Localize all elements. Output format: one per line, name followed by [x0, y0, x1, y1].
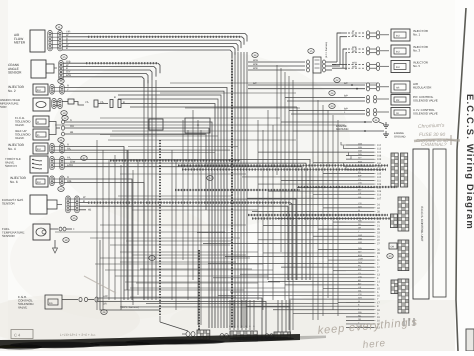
- svg-text:BR: BR: [103, 303, 107, 306]
- svg-text:G/B: G/B: [358, 153, 362, 156]
- wires: egr control valve: [98, 295, 266, 341]
- svg-text:S: S: [70, 119, 72, 122]
- svg-text:101: 101: [377, 151, 382, 154]
- svg-text:GROUND: GROUND: [394, 135, 406, 138]
- ECCS control unit box: [413, 149, 429, 299]
- svg-text:VALVE: VALVE: [15, 123, 24, 127]
- ECU bottom stub ticks: [404, 318, 414, 326]
- svg-text:No. 3: No. 3: [413, 49, 421, 53]
- connector 18 (fuel temp sensor): [63, 238, 69, 243]
- wire: fuel temperature sensor: [50, 227, 75, 231]
- connector 24 (egr valve): [101, 310, 107, 315]
- svg-text:AR: AR: [396, 87, 400, 90]
- faint pencil note bottom left: [60, 333, 96, 337]
- ECU connector grid F: [398, 279, 409, 313]
- svg-text:R: R: [67, 85, 69, 88]
- wire: injector No.6: [64, 176, 144, 300]
- svg-text:110: 110: [377, 162, 382, 165]
- handwriting near ECU (pencil notes): [414, 123, 460, 148]
- svg-text:114: 114: [377, 194, 382, 197]
- svg-text:SOR: SOR: [0, 105, 7, 109]
- svg-text:AV: AV: [396, 112, 399, 115]
- injector No.2: [8, 84, 64, 95]
- svg-text:E.C.C.S. Wiring Diagram: E.C.C.S. Wiring Diagram: [465, 94, 474, 230]
- connector mark in harness mesh: [149, 256, 155, 261]
- svg-text:102: 102: [377, 176, 382, 179]
- F.I.C.D. solenoid valve: [15, 116, 49, 127]
- svg-text:L/OR: L/OR: [358, 258, 363, 261]
- vertical title: ECCS Wiring Diagram: [465, 94, 474, 230]
- engine ground (upper): [281, 118, 389, 132]
- wire: injector No.2: [64, 85, 227, 328]
- svg-text:L/R: L/R: [358, 192, 362, 195]
- wires: ficd / idle up valves: [62, 119, 213, 328]
- svg-text:107: 107: [377, 197, 382, 200]
- svg-text:G/R: G/R: [358, 297, 362, 300]
- connector 34: [252, 53, 258, 58]
- svg-text:Y/R: Y/R: [358, 293, 362, 296]
- page edge line (right): [456, 8, 466, 351]
- svg-text:B/W: B/W: [66, 74, 71, 77]
- svg-text:B/P: B/P: [344, 108, 348, 111]
- svg-text:112: 112: [377, 144, 382, 147]
- air flow meter: [14, 30, 62, 52]
- svg-text:W/G: W/G: [352, 62, 357, 65]
- svg-text:R/B: R/B: [67, 180, 72, 183]
- svg-text:here: here: [362, 338, 386, 351]
- svg-text:L/W: L/W: [103, 295, 108, 298]
- svg-text:106: 106: [377, 190, 382, 193]
- connector 37 (throttle valve switch): [81, 156, 87, 161]
- ECU connector small box OR: [389, 243, 397, 249]
- ECU connector grid A2: [401, 153, 408, 187]
- svg-text:R: R: [67, 176, 69, 179]
- svg-text:OR: OR: [70, 125, 74, 128]
- junction box (harness splice) A: [149, 119, 163, 130]
- svg-text:W/B: W/B: [358, 146, 363, 149]
- svg-text:OR: OR: [391, 246, 395, 249]
- fuel temperature sensor: [2, 224, 50, 240]
- wires: exhaust gas sensor (shielded): [79, 196, 296, 280]
- connector 30 (ecu): [387, 254, 393, 259]
- bottom-right page corner box: [466, 329, 474, 351]
- svg-text:W/G: W/G: [253, 59, 258, 62]
- EFI harness junction connector: [248, 42, 343, 73]
- svg-text:+: +: [73, 227, 75, 231]
- svg-text:VALVE: VALVE: [18, 306, 27, 310]
- svg-text:W/G: W/G: [358, 143, 363, 146]
- P.R. control solenoid valve: [285, 95, 438, 106]
- svg-text:BR: BR: [358, 279, 361, 282]
- svg-text:FI: FI: [37, 121, 39, 124]
- wire bundle: crank angle sensor: [63, 60, 160, 86]
- harness boundary rectangle: [100, 240, 160, 310]
- exhaust gas sensor: [2, 195, 79, 214]
- svg-text:W/R: W/R: [253, 67, 258, 70]
- svg-text:EG: EG: [49, 302, 53, 305]
- check connector sub-circuit (cyl head temp): [62, 96, 297, 328]
- svg-text:SENSOR: SENSOR: [2, 234, 16, 238]
- svg-text:W/B: W/B: [253, 63, 258, 66]
- svg-text:METER: METER: [14, 41, 26, 45]
- ECU connector grid A1: [391, 153, 398, 187]
- svg-text:B: B: [83, 200, 85, 203]
- svg-text:B: B: [114, 96, 116, 99]
- svg-text:L/W: L/W: [358, 182, 362, 185]
- A.I.V. control solenoid valve: [289, 108, 438, 119]
- svg-text:C 4: C 4: [14, 333, 21, 338]
- svg-text:SOLENOID VALVE: SOLENOID VALVE: [413, 111, 438, 115]
- ECU connector grid C: [391, 214, 398, 228]
- connector 16 (exhaust gas sensor): [71, 216, 77, 221]
- connector 12 (ficd/idle up): [62, 116, 68, 121]
- connector 11 (air flow meter): [56, 25, 62, 30]
- svg-text:G/R: G/R: [358, 205, 362, 208]
- injector No.3: [343, 45, 429, 70]
- svg-text:103: 103: [377, 158, 382, 161]
- svg-text:G/B: G/B: [358, 247, 362, 250]
- center-left vertical wires: [97, 110, 201, 325]
- svg-text:SWITCH: SWITCH: [5, 164, 17, 168]
- svg-text:L/W: L/W: [358, 275, 362, 278]
- svg-text:PR: PR: [396, 99, 400, 102]
- injector No.4: [8, 143, 64, 154]
- ECU side box: [433, 149, 446, 297]
- svg-text:W: W: [358, 209, 360, 212]
- svg-text:(E.F.I. harness): (E.F.I. harness): [325, 42, 328, 58]
- connector 26 (injector No.6): [58, 187, 64, 192]
- svg-text:ID: ID: [37, 134, 40, 137]
- svg-text:109: 109: [377, 183, 382, 186]
- svg-text:B/P: B/P: [344, 82, 348, 85]
- connector mark in harness mesh 2: [207, 176, 213, 181]
- svg-text:4B: 4B: [70, 131, 73, 134]
- svg-text:SOLENOID VALVE: SOLENOID VALVE: [413, 98, 438, 102]
- svg-text:W/B: W/B: [358, 237, 363, 240]
- center-right vertical wires: [258, 65, 338, 330]
- svg-text:W/G: W/G: [358, 234, 363, 237]
- svg-text:VALVE: VALVE: [15, 136, 24, 140]
- svg-text:Y: Y: [67, 88, 69, 91]
- svg-text:CRIMINAL?: CRIMINAL?: [421, 142, 447, 148]
- supplemental mesh horizontals: [100, 135, 338, 307]
- idle up solenoid valve: [15, 122, 65, 141]
- svg-text:G/Y: G/Y: [358, 250, 362, 253]
- svg-text:No. 1: No. 1: [413, 33, 421, 37]
- svg-text:E.C.C.S. CONTROL UNIT: E.C.C.S. CONTROL UNIT: [420, 207, 424, 242]
- junction box (harness splice) B: [185, 118, 210, 133]
- svg-text:B/P: B/P: [253, 82, 257, 85]
- svg-text:108: 108: [377, 155, 382, 158]
- svg-text:W/R: W/R: [358, 241, 363, 244]
- svg-text:No. 6: No. 6: [10, 180, 18, 184]
- svg-text:SENSOR: SENSOR: [8, 71, 22, 75]
- svg-text:No. 2: No. 2: [8, 89, 16, 93]
- shielded horizontal runs (hatched): [110, 161, 397, 219]
- svg-text:4B: 4B: [88, 209, 91, 212]
- svg-text:SENSOR: SENSOR: [2, 202, 16, 206]
- svg-text:B: B: [66, 47, 68, 50]
- svg-text:L+16+18+1 + 3+6 + b.c.: L+16+18+1 + 3+6 + b.c.: [60, 333, 96, 337]
- svg-text:Y/L: Y/L: [85, 101, 89, 104]
- svg-text:113: 113: [377, 148, 382, 151]
- connector 25 (crank angle sensor): [61, 55, 67, 60]
- engine ground (lower): [293, 130, 406, 138]
- injector No.5: [332, 61, 429, 73]
- svg-text:B/W: B/W: [358, 254, 362, 257]
- svg-text:REGULATOR: REGULATOR: [413, 86, 432, 90]
- svg-text:R/B: R/B: [358, 311, 362, 314]
- pencil cross mark on page edge: [446, 135, 456, 145]
- svg-text:111: 111: [377, 180, 381, 183]
- connector 23 (aiv valve): [329, 104, 335, 109]
- connector 19 (cyl head temp sensor): [61, 111, 67, 116]
- svg-text:B/P: B/P: [344, 95, 348, 98]
- svg-text:No. 5: No. 5: [413, 64, 421, 68]
- connector 20 (injector No.2): [58, 79, 64, 84]
- svg-text:(E.F.I. harness): (E.F.I. harness): [121, 306, 139, 309]
- svg-text:Y/R: Y/R: [358, 202, 362, 205]
- crank angle sensor: [8, 60, 63, 80]
- throttle valve switch: [5, 156, 64, 173]
- cylinder head temperature sensor: [0, 98, 62, 111]
- bottom connector right-center: [265, 300, 290, 339]
- connector 15 (efi harness): [308, 49, 314, 54]
- svg-text:105: 105: [377, 172, 382, 175]
- bottom scan shadow band: [0, 334, 326, 350]
- ECCS control unit pin stub rows: [346, 143, 382, 330]
- injector No.6: [10, 176, 64, 187]
- bottom connector (shielded pair termination): [160, 316, 210, 340]
- svg-text:R: R: [67, 144, 69, 147]
- svg-text:G/W: G/W: [358, 261, 362, 264]
- svg-text:R/L: R/L: [67, 147, 72, 150]
- wire bundle: air flow meter to harness: [62, 31, 247, 58]
- svg-text:No. 4: No. 4: [8, 147, 16, 151]
- connector 21 (injector No.4): [58, 138, 64, 143]
- svg-text:G/W: G/W: [70, 160, 76, 163]
- paper mottling: [0, 50, 440, 345]
- ground (fuel temp sensor): [53, 240, 58, 253]
- crank sensor vertical bundle: [144, 80, 160, 316]
- ECU connector grid B: [398, 197, 409, 231]
- connector 24b (pr valve): [329, 91, 335, 96]
- connector 22 (air regulator): [334, 78, 340, 83]
- bottom connector center (main bundle): [220, 300, 257, 341]
- long horizontal distribution wires: [50, 83, 378, 288]
- ECU connector grid D: [398, 240, 409, 271]
- handwriting: keep everything's here: [317, 316, 418, 351]
- stamp C-4 bottom left: [11, 330, 33, 339]
- ECU feed horizontals from harness: [197, 142, 351, 313]
- main harness vertical bundle (from air flow meter): [232, 52, 247, 328]
- shielded ladder to bottom connector: [198, 250, 200, 330]
- injector No.1: [337, 29, 429, 65]
- svg-text:W: W: [358, 300, 360, 303]
- wires: throttle valve switch: [64, 157, 310, 280]
- ECU connector grid E: [391, 280, 398, 294]
- E.G.R. control solenoid valve: [18, 295, 98, 310]
- svg-text:L/R: L/R: [358, 286, 362, 289]
- svg-text:L/OR: L/OR: [67, 164, 73, 167]
- svg-text:W/B: W/B: [352, 46, 357, 49]
- air regulator: [248, 81, 432, 93]
- svg-text:R/B: R/B: [358, 220, 362, 223]
- wire: injector No.4: [64, 144, 128, 300]
- svg-text:B/W: B/W: [358, 160, 362, 163]
- svg-text:G/Y: G/Y: [358, 157, 362, 160]
- svg-text:W/R: W/R: [358, 150, 363, 153]
- svg-text:OR: OR: [358, 227, 362, 230]
- svg-text:P/L: P/L: [67, 157, 71, 160]
- pencil diagonal mark bottom-left: [84, 276, 116, 293]
